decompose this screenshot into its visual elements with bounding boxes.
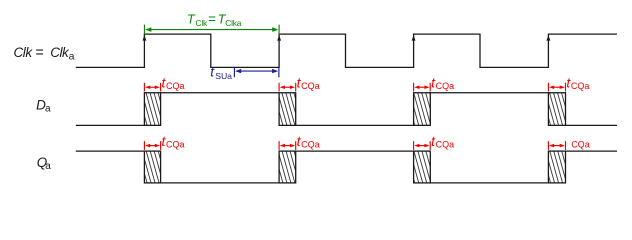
Qa waveform segments [76,151,617,183]
Qa tCQa annotation 1 (red) [144,134,184,150]
svg-text:CQa: CQa [301,81,320,91]
Qa tCQa annotation 3 (red) [414,134,455,150]
svg-text:CQa: CQa [166,139,185,149]
svg-text:=: = [208,12,216,27]
svg-text:CQa: CQa [571,139,590,149]
svg-text:a: a [45,104,51,115]
svg-text:CQa: CQa [571,81,590,91]
svg-text:SUa: SUa [215,71,232,81]
svg-text:a: a [69,51,75,63]
clock rising edge arrow 4 [546,35,550,40]
Qa transition box 2 (hatched) [279,151,296,183]
svg-text:Clk: Clk [50,45,70,60]
Da transition box 2 (hatched) [279,93,296,126]
Da transition box 1 (hatched) [144,93,160,126]
svg-text:CQa: CQa [436,81,455,91]
svg-text:CQa: CQa [436,139,455,149]
svg-text:Clk: Clk [14,45,34,60]
clock rising edge arrow 3 [412,35,416,40]
Da tCQa annotation 4 (red) [548,76,589,92]
Qa tCQa annotation 4 (red, missing t) [548,139,589,150]
Da tCQa annotation 2 (red) [279,76,320,92]
setup time annotation tSUa (blue) [234,67,279,77]
Qa signal label [37,155,52,172]
period annotation TClk = TClka (green) [144,25,279,35]
svg-text:Clka: Clka [225,18,241,28]
svg-text:=: = [35,45,43,61]
svg-text:a: a [45,161,51,172]
Da transition box 4 (hatched) [548,93,565,126]
Qa transition box 4 (hatched) [548,151,565,183]
svg-text:CQa: CQa [166,81,185,91]
clock rising edge arrow 1 [143,35,147,40]
svg-text:CQa: CQa [301,139,320,149]
clock rising edge arrow 2 [277,35,281,40]
Qa transition box 3 (hatched) [414,151,431,183]
Da signal label [36,97,51,114]
Qa transition box 1 (hatched) [144,151,160,183]
clock waveform Clk [76,34,617,67]
Da tCQa annotation 1 (red) [144,76,184,92]
Da waveform segments [76,93,617,126]
Da transition box 3 (hatched) [414,93,431,126]
svg-text:Clk: Clk [196,18,209,28]
Da tCQa annotation 3 (red) [414,76,455,92]
Qa tCQa annotation 2 (red) [279,134,320,150]
clock signal label Clk = Clka [14,45,75,63]
